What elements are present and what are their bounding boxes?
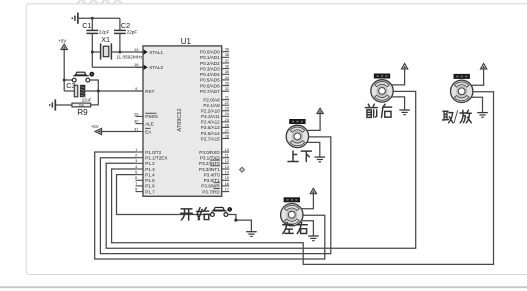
pin P0.5/AD5 (34) — [222, 79, 230, 81]
svg-text:P2.1/A9: P2.1/A9 — [203, 103, 220, 108]
svg-text:P2.2/A10: P2.2/A10 — [201, 109, 220, 114]
svg-text:P2.6/A14: P2.6/A14 — [201, 131, 220, 136]
svg-text:22uF: 22uF — [82, 98, 92, 103]
svg-text:RST: RST — [145, 89, 154, 94]
pin P2.6/A14 (27) — [222, 132, 230, 134]
svg-text:27: 27 — [225, 128, 230, 133]
svg-text:P1.5: P1.5 — [145, 178, 155, 183]
svg-text:P0.0/AD0: P0.0/AD0 — [200, 50, 220, 55]
node junction crystal/C1 — [91, 51, 94, 54]
wire motor- to ground — [301, 221, 313, 236]
svg-text:P3.2/INT0: P3.2/INT0 — [199, 161, 220, 166]
pin P2.1/A9 (22) — [222, 104, 230, 106]
svg-text:13: 13 — [225, 164, 230, 169]
pin P2.4/A12 (25) — [222, 121, 230, 123]
svg-text:25: 25 — [225, 117, 230, 122]
svg-text:P0.6/AD6: P0.6/AD6 — [200, 83, 220, 88]
svg-text:C1: C1 — [82, 21, 91, 30]
ground (R9) — [50, 99, 56, 110]
svg-text:12: 12 — [225, 158, 230, 163]
pin P0.7/AD7 (32) — [222, 90, 230, 92]
svg-text:31: 31 — [134, 126, 139, 131]
servo motor QUFANG : connector band — [454, 74, 470, 79]
svg-text:ALE: ALE — [145, 121, 154, 126]
svg-text:19: 19 — [134, 47, 139, 52]
svg-text:15: 15 — [225, 175, 230, 180]
pin P2.7/A15 (28) — [222, 138, 230, 140]
wire P1.4 to start button — [117, 175, 211, 215]
capacitor C2 — [114, 29, 126, 31]
push button (reset) — [64, 79, 72, 81]
ground (start button) — [246, 232, 257, 237]
label QIANHOU (fwd/back) — [365, 104, 377, 117]
svg-text:35: 35 — [225, 69, 230, 74]
+5V power arrow — [401, 64, 407, 69]
svg-text:P1.6: P1.6 — [145, 184, 155, 189]
wire rail to C1/C2 — [78, 17, 120, 19]
pin P0.3/AD3 (36) — [222, 68, 230, 70]
wire XTAL2 net — [92, 66, 143, 68]
node junction — [234, 219, 237, 222]
svg-text:P0.5/AD5: P0.5/AD5 — [200, 78, 220, 83]
pin P1.3 (4) — [136, 168, 144, 170]
svg-text:P2.7/A15: P2.7/A15 — [201, 136, 220, 141]
wire P1.1 to motor SHANGXIA — [100, 137, 330, 254]
svg-text:P1.0/T2: P1.0/T2 — [145, 150, 162, 155]
resistor R9 — [72, 103, 91, 107]
pin EA (31) — [136, 131, 144, 133]
svg-text:P2.4/A12: P2.4/A12 — [201, 120, 220, 125]
pin P0.0/AD0 (39) — [222, 51, 230, 53]
wire button to R9 — [89, 80, 98, 105]
wire motor+ to +5V — [392, 69, 405, 85]
svg-text:PSEN: PSEN — [145, 114, 158, 119]
svg-text:+5V: +5V — [58, 39, 66, 44]
+5V power arrow — [310, 188, 316, 193]
pin P0.2/AD2 (37) — [222, 62, 230, 64]
pin P1.2 (3) — [136, 162, 144, 164]
svg-text:R9: R9 — [77, 108, 88, 117]
pin XTAL1 (19) — [136, 51, 144, 53]
servo motor ZUOYOU : body — [281, 204, 303, 226]
wire XTAL1 net — [92, 51, 100, 53]
XTAL1 clock marker — [144, 49, 148, 54]
wire C3 left — [64, 90, 74, 92]
svg-text:P3.3/INT1: P3.3/INT1 — [199, 167, 220, 172]
svg-text:P1.1/T2EX: P1.1/T2EX — [145, 156, 167, 161]
node junction button branch — [63, 79, 66, 82]
svg-text:P3.6/WR: P3.6/WR — [201, 184, 220, 189]
svg-text:P2.5/A13: P2.5/A13 — [201, 125, 220, 130]
servo motor SHANGXIA : connector band — [289, 119, 305, 124]
pin P2.5/A13 (26) — [222, 126, 230, 128]
svg-text:U1: U1 — [181, 37, 192, 46]
svg-text:P0.4/AD4: P0.4/AD4 — [200, 72, 220, 77]
pin PSEN (29) — [136, 115, 144, 117]
wire button to ground — [228, 215, 252, 232]
servo motor SHANGXIA : body — [286, 125, 308, 147]
svg-text:P1.4: P1.4 — [145, 172, 155, 177]
svg-text:P3.0/RXD: P3.0/RXD — [199, 150, 220, 155]
svg-text:18: 18 — [134, 62, 139, 67]
+5V power arrow — [480, 64, 486, 69]
pin P1.7 (8) — [136, 191, 144, 193]
ground — [315, 157, 326, 162]
pin P0.4/AD4 (35) — [222, 73, 230, 75]
svg-text:21: 21 — [225, 95, 230, 100]
svg-text:10k: 10k — [78, 103, 84, 107]
wire motor+ to +5V — [307, 114, 320, 131]
svg-text:26: 26 — [225, 122, 230, 127]
svg-text:X1: X1 — [101, 35, 110, 44]
pin P3.3/INT1 (13) — [222, 168, 230, 170]
+5V power arrow — [317, 108, 323, 113]
svg-text:P1.2: P1.2 — [145, 161, 155, 166]
svg-text:14: 14 — [225, 170, 230, 175]
label SHANGXIA (up/down) — [288, 151, 298, 162]
node marker (diamond) — [240, 167, 245, 172]
svg-text:38: 38 — [225, 52, 230, 57]
svg-text:P2.0/A8: P2.0/A8 — [203, 98, 220, 103]
node junction RST/R9 — [97, 90, 100, 93]
wire motor- to ground — [392, 97, 405, 110]
svg-text:29: 29 — [134, 111, 139, 116]
XTAL2 clock marker — [144, 65, 148, 70]
node junction C1 top — [91, 17, 94, 20]
svg-text:XTAL1: XTAL1 — [149, 50, 163, 55]
servo motor QUFANG : body — [451, 80, 473, 102]
svg-text:36: 36 — [225, 64, 230, 69]
pin P3.6/WR (16) — [222, 185, 230, 187]
wire P1.3 to motor QUFANG — [112, 92, 494, 265]
svg-text:39: 39 — [225, 47, 230, 52]
svg-text:16: 16 — [225, 181, 230, 186]
svg-text:P1.3: P1.3 — [145, 167, 155, 172]
pin P3.5/T1 (15) — [222, 179, 230, 181]
pin P3.1/TXD (11) — [222, 157, 230, 159]
watermark — [77, 0, 122, 4]
svg-text:P0.7/AD7: P0.7/AD7 — [200, 89, 220, 94]
ground — [308, 236, 319, 241]
wire P1.2 to motor QIANHOU — [106, 91, 416, 248]
svg-text:P2.3/A11: P2.3/A11 — [201, 114, 220, 119]
pin P1.0/T2 (1) — [136, 151, 144, 153]
node junction crystal/C2 — [118, 51, 121, 54]
svg-text:AT89C52: AT89C52 — [177, 108, 183, 131]
pin P1.4 (5) — [136, 174, 144, 176]
svg-text:33: 33 — [225, 81, 230, 86]
svg-text:P0.1/AD1: P0.1/AD1 — [200, 55, 220, 60]
svg-text:22pF: 22pF — [127, 29, 138, 34]
pin P3.7/RD (17) — [222, 191, 230, 193]
pin P0.1/AD1 (38) — [222, 56, 230, 58]
svg-text:10: 10 — [225, 147, 230, 152]
pin P2.0/A8 (21) — [222, 99, 230, 101]
wire +5V down — [63, 50, 65, 91]
pin P0.6/AD6 (33) — [222, 85, 230, 87]
wire EA — [101, 131, 135, 133]
op: none; IC U1 AT89C52 body — [143, 46, 222, 196]
capacitor C1 — [91, 18, 93, 30]
svg-text:32: 32 — [225, 86, 230, 91]
svg-text:P1.7: P1.7 — [145, 189, 155, 194]
label QUFANG (take/put) — [443, 111, 453, 122]
servo motor QIANHOU : connector band — [374, 74, 390, 79]
wire C2 drop — [119, 18, 121, 30]
wire R9 to ground — [55, 104, 72, 106]
svg-text:11.0592MHz: 11.0592MHz — [116, 55, 143, 60]
servo motor QIANHOU : body — [371, 80, 393, 102]
svg-text:34: 34 — [225, 75, 230, 80]
pin P2.2/A10 (23) — [222, 110, 230, 112]
svg-text:22pF: 22pF — [99, 29, 110, 34]
svg-text:P0.2/AD2: P0.2/AD2 — [200, 61, 220, 66]
svg-text:+5V: +5V — [91, 124, 99, 129]
ground (crystal caps rail) — [72, 13, 78, 24]
label ZUOYOU (left/right) — [283, 223, 293, 234]
pin P3.4/T0 (14) — [222, 174, 230, 176]
pin RST (9) — [136, 90, 144, 92]
svg-text:XTAL2: XTAL2 — [149, 65, 163, 70]
svg-text:37: 37 — [225, 58, 230, 63]
svg-text:P3.4/T0: P3.4/T0 — [204, 172, 221, 177]
pin P1.1/T2EX (2) — [136, 157, 144, 159]
pin XTAL2 (18) — [136, 66, 144, 68]
wire motor+ to +5V — [471, 69, 483, 85]
pin ALE (30) — [136, 123, 144, 125]
pin P2.3/A11 (24) — [222, 115, 230, 117]
svg-text:28: 28 — [225, 133, 230, 138]
wire C3 to RST — [85, 90, 143, 92]
svg-text:23: 23 — [225, 106, 230, 111]
label KAISHI (start) — [181, 209, 193, 220]
servo motor ZUOYOU : connector band — [284, 197, 300, 202]
wire motor- to ground — [471, 97, 482, 112]
svg-text:17: 17 — [225, 187, 230, 192]
svg-text:22: 22 — [225, 100, 230, 105]
pin P1.5 (6) — [136, 179, 144, 181]
wire motor+ to +5V — [301, 194, 313, 209]
wire motor- to ground — [307, 142, 320, 157]
pin P3.2/INT0 (12) — [222, 162, 230, 164]
svg-text:EA: EA — [145, 129, 152, 134]
ground — [399, 110, 410, 115]
pin P3.0/RXD (10) — [222, 151, 230, 153]
pin P1.6 (7) — [136, 185, 144, 187]
page bottom rule — [0, 286, 527, 288]
wire P1.0 to motor ZUOYOU — [95, 152, 325, 259]
svg-text:30: 30 — [134, 119, 139, 124]
push button KAISHI (start) — [212, 210, 227, 212]
svg-text:P0.3/AD3: P0.3/AD3 — [200, 66, 220, 71]
svg-text:P3.7/RD: P3.7/RD — [202, 189, 220, 194]
ground — [477, 113, 488, 118]
svg-text:24: 24 — [225, 111, 230, 116]
